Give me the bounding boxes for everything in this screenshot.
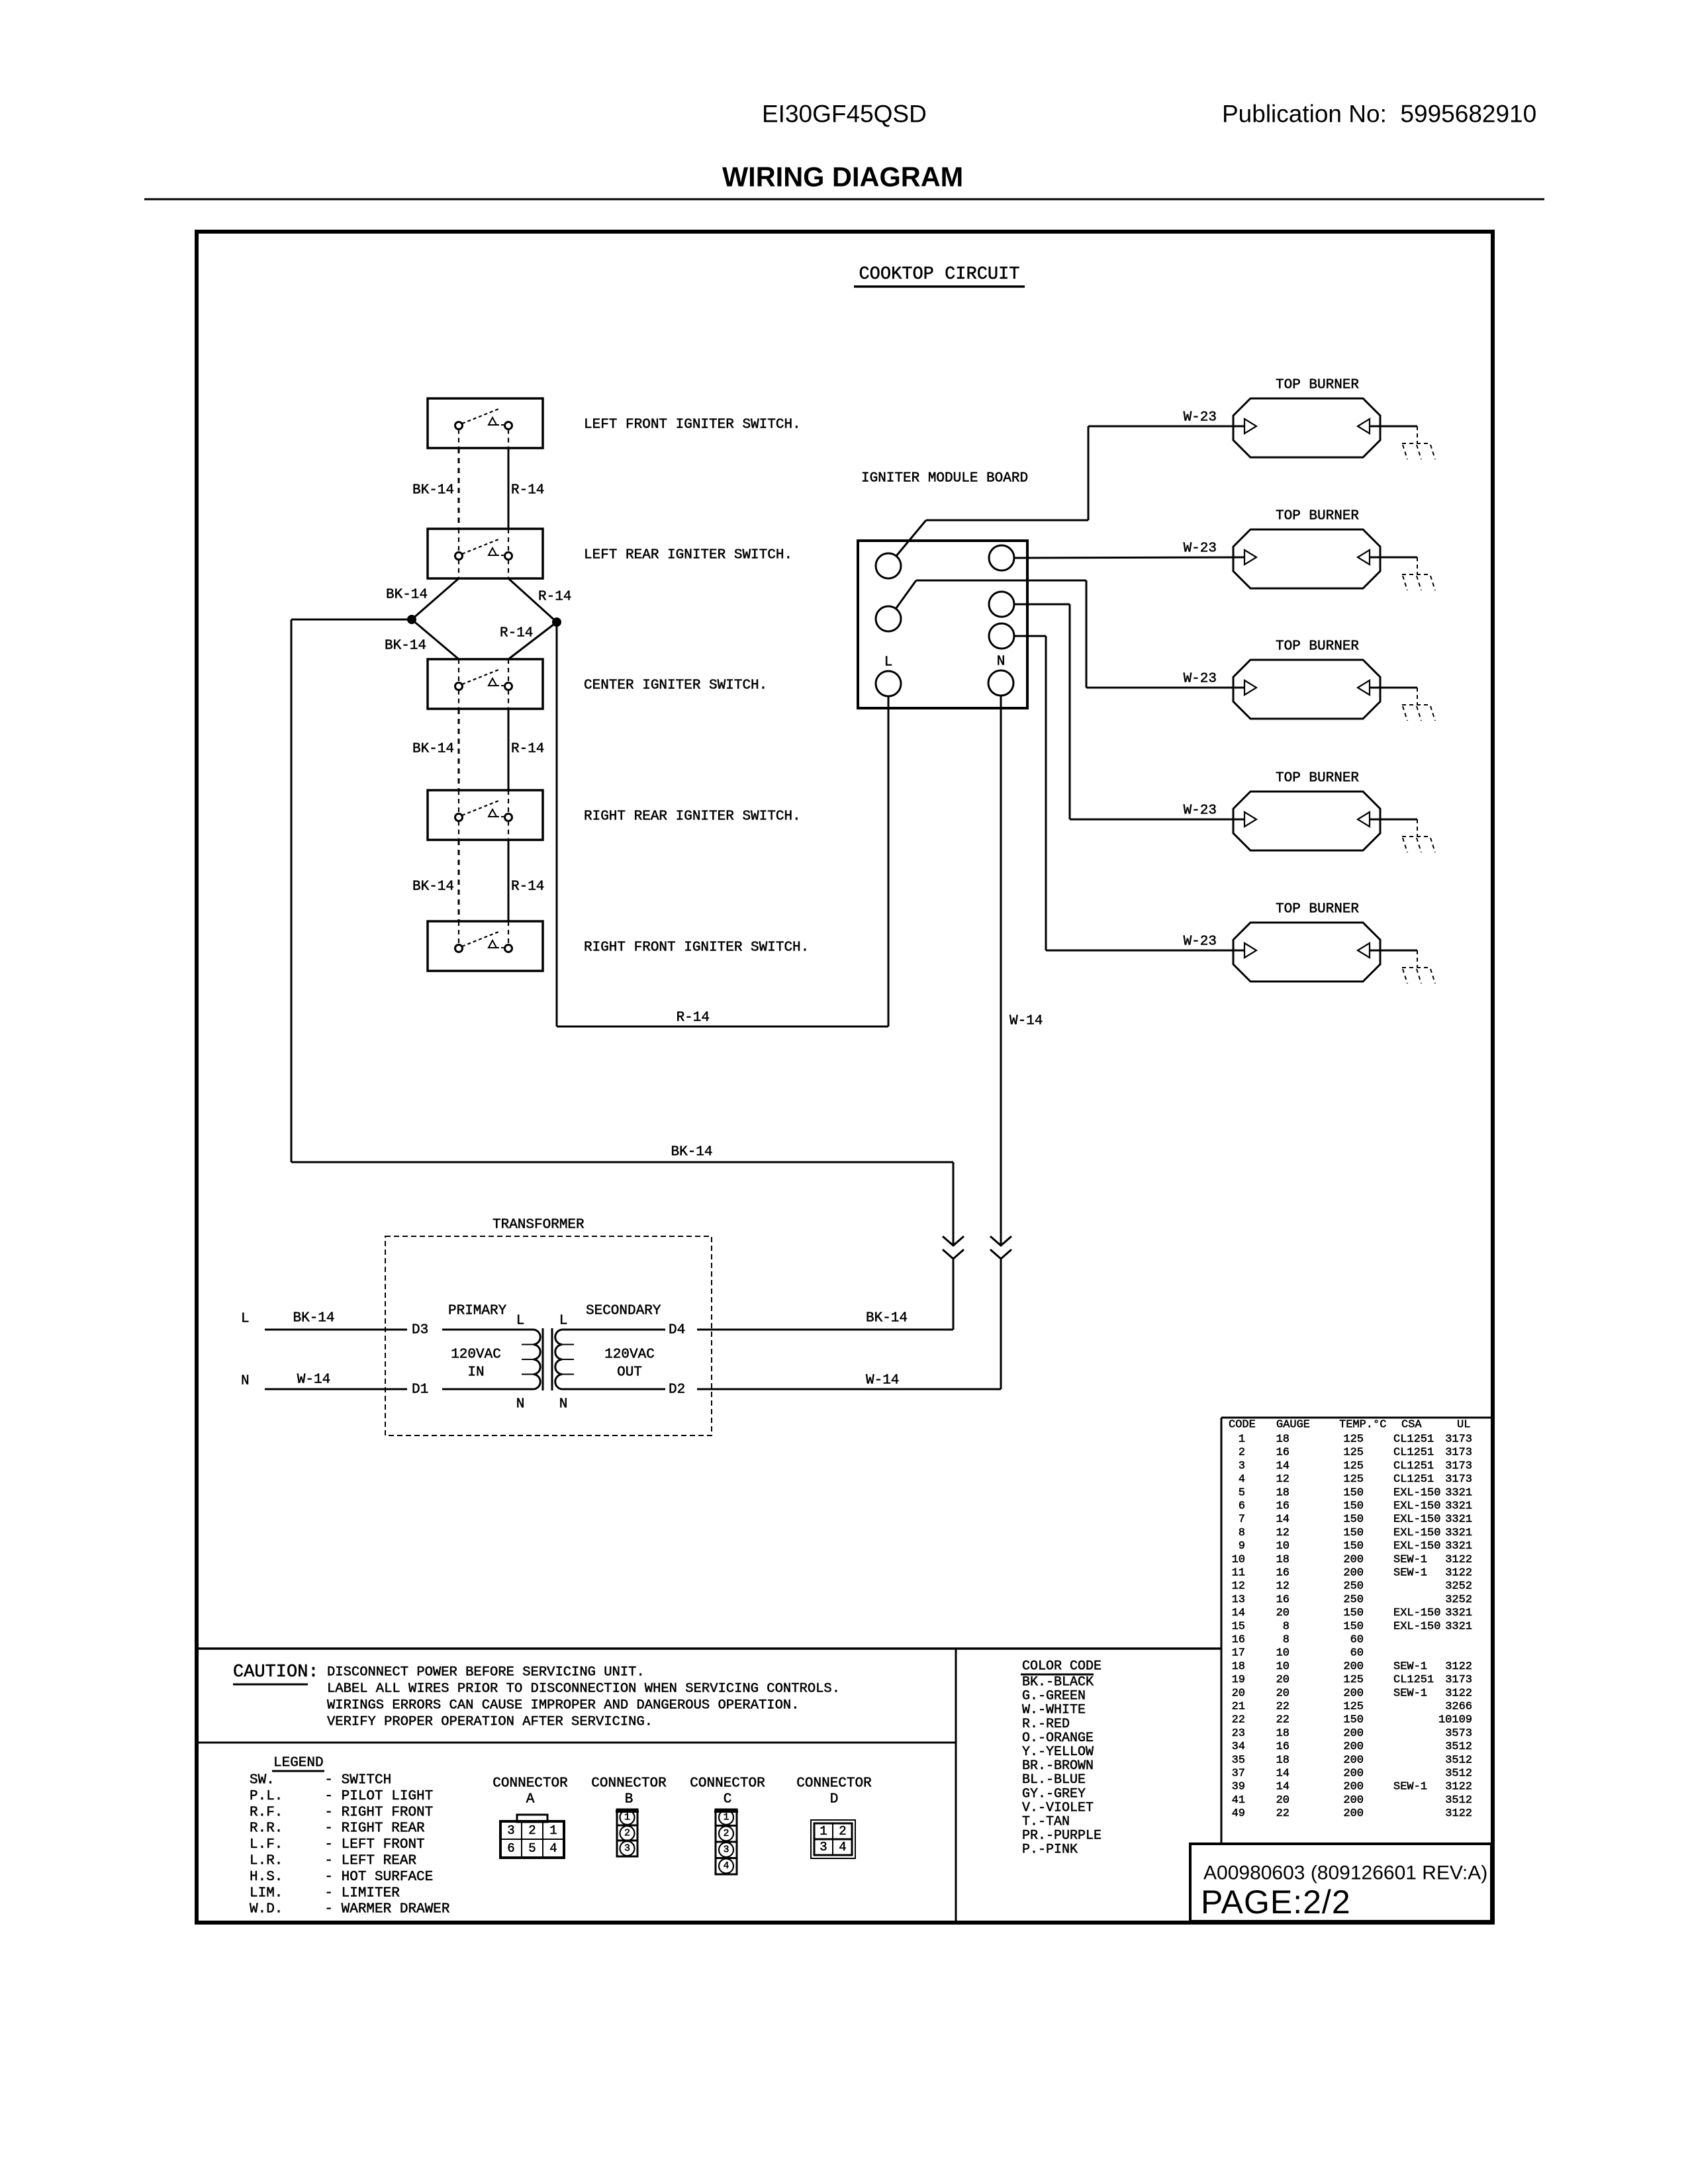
svg-text:L: L bbox=[241, 1312, 250, 1327]
svg-text:TOP BURNER: TOP BURNER bbox=[1276, 639, 1359, 655]
svg-text:L.R. - LEFT REAR: L.R. - LEFT REAR bbox=[250, 1854, 416, 1869]
svg-text:34: 34 bbox=[1232, 1741, 1245, 1753]
svg-text:R-14: R-14 bbox=[538, 590, 571, 605]
svg-text:CODE: CODE bbox=[1229, 1419, 1256, 1432]
svg-text:7: 7 bbox=[1239, 1514, 1245, 1526]
svg-text:14: 14 bbox=[1276, 1768, 1289, 1780]
svg-text:200: 200 bbox=[1343, 1794, 1364, 1807]
svg-text:3173: 3173 bbox=[1445, 1447, 1472, 1459]
svg-text:R-14: R-14 bbox=[511, 742, 544, 757]
svg-text:L.F. - LEFT FRONT: L.F. - LEFT FRONT bbox=[250, 1837, 425, 1852]
svg-text:13: 13 bbox=[1232, 1594, 1245, 1606]
svg-text:14: 14 bbox=[1232, 1607, 1245, 1619]
svg-text:TOP BURNER: TOP BURNER bbox=[1276, 902, 1359, 917]
svg-text:250: 250 bbox=[1343, 1594, 1364, 1606]
svg-text:CONNECTOR: CONNECTOR bbox=[690, 1776, 765, 1792]
svg-text:3512: 3512 bbox=[1445, 1741, 1472, 1753]
svg-text:3321: 3321 bbox=[1445, 1620, 1472, 1633]
svg-text:SECONDARY: SECONDARY bbox=[586, 1304, 661, 1319]
svg-text:20: 20 bbox=[1276, 1794, 1289, 1807]
svg-text:BK-14: BK-14 bbox=[866, 1311, 908, 1326]
svg-text:CL1251: CL1251 bbox=[1393, 1473, 1434, 1486]
svg-text:WIRING DIAGRAM: WIRING DIAGRAM bbox=[722, 161, 963, 193]
svg-text:CENTER IGNITER SWITCH.: CENTER IGNITER SWITCH. bbox=[584, 678, 767, 694]
svg-text:LEFT REAR IGNITER SWITCH.: LEFT REAR IGNITER SWITCH. bbox=[584, 548, 792, 563]
svg-text:150: 150 bbox=[1343, 1514, 1364, 1526]
svg-text:3321: 3321 bbox=[1445, 1486, 1472, 1499]
svg-text:2: 2 bbox=[839, 1824, 846, 1839]
svg-text:18: 18 bbox=[1276, 1727, 1289, 1740]
svg-text:3512: 3512 bbox=[1445, 1754, 1472, 1766]
svg-text:W-14: W-14 bbox=[866, 1373, 899, 1388]
svg-text:125: 125 bbox=[1343, 1674, 1364, 1686]
svg-text:BK-14: BK-14 bbox=[293, 1311, 334, 1326]
svg-text:N: N bbox=[997, 655, 1006, 670]
svg-text:3122: 3122 bbox=[1445, 1781, 1472, 1794]
svg-text:22: 22 bbox=[1276, 1807, 1289, 1820]
svg-text:20: 20 bbox=[1276, 1674, 1289, 1686]
svg-text:3: 3 bbox=[507, 1823, 514, 1838]
svg-text:3252: 3252 bbox=[1445, 1580, 1472, 1593]
svg-text:16: 16 bbox=[1232, 1634, 1245, 1647]
svg-text:1: 1 bbox=[820, 1824, 827, 1839]
svg-text:150: 150 bbox=[1343, 1486, 1364, 1499]
svg-text:W-14: W-14 bbox=[297, 1373, 330, 1388]
svg-text:17: 17 bbox=[1232, 1647, 1245, 1660]
svg-text:TOP BURNER: TOP BURNER bbox=[1276, 378, 1359, 393]
svg-text:LEGEND: LEGEND bbox=[273, 1756, 324, 1771]
svg-text:TOP BURNER: TOP BURNER bbox=[1276, 771, 1359, 786]
svg-text:EXL-150: EXL-150 bbox=[1393, 1514, 1440, 1526]
svg-text:10: 10 bbox=[1276, 1540, 1289, 1553]
svg-text:BK-14: BK-14 bbox=[386, 588, 428, 603]
svg-text:BK.-BLACK: BK.-BLACK bbox=[1022, 1675, 1094, 1690]
svg-text:2: 2 bbox=[1239, 1447, 1245, 1459]
svg-text:R-14: R-14 bbox=[511, 880, 544, 895]
svg-text:3173: 3173 bbox=[1445, 1460, 1472, 1473]
svg-text:200: 200 bbox=[1343, 1553, 1364, 1566]
svg-text:R-14: R-14 bbox=[511, 483, 544, 498]
svg-text:200: 200 bbox=[1343, 1687, 1364, 1700]
svg-text:12: 12 bbox=[1276, 1580, 1289, 1593]
svg-text:250: 250 bbox=[1343, 1580, 1364, 1593]
svg-text:GAUGE: GAUGE bbox=[1276, 1419, 1310, 1432]
svg-text:C: C bbox=[724, 1792, 732, 1807]
svg-text:CONNECTOR: CONNECTOR bbox=[492, 1776, 568, 1792]
svg-text:3512: 3512 bbox=[1445, 1768, 1472, 1780]
svg-text:8: 8 bbox=[1283, 1634, 1289, 1647]
svg-text:3: 3 bbox=[820, 1840, 827, 1854]
svg-text:H.S. - HOT SURFACE: H.S. - HOT SURFACE bbox=[250, 1870, 433, 1885]
svg-text:49: 49 bbox=[1232, 1807, 1245, 1820]
svg-text:150: 150 bbox=[1343, 1540, 1364, 1553]
svg-text:120VAC: 120VAC bbox=[604, 1347, 655, 1363]
svg-text:10: 10 bbox=[1276, 1647, 1289, 1660]
svg-text:200: 200 bbox=[1343, 1661, 1364, 1673]
svg-text:W-23: W-23 bbox=[1184, 410, 1217, 426]
svg-text:3266: 3266 bbox=[1445, 1701, 1472, 1713]
svg-text:3122: 3122 bbox=[1445, 1661, 1472, 1673]
svg-text:18: 18 bbox=[1276, 1553, 1289, 1566]
svg-text:4: 4 bbox=[839, 1840, 846, 1854]
svg-text:16: 16 bbox=[1276, 1447, 1289, 1459]
svg-text:12: 12 bbox=[1276, 1527, 1289, 1539]
svg-text:N: N bbox=[516, 1397, 525, 1412]
svg-text:CL1251: CL1251 bbox=[1393, 1674, 1434, 1686]
svg-text:8: 8 bbox=[1283, 1620, 1289, 1633]
svg-text:125: 125 bbox=[1343, 1460, 1364, 1473]
svg-text:10: 10 bbox=[1276, 1661, 1289, 1673]
svg-text:B: B bbox=[625, 1792, 633, 1807]
svg-text:200: 200 bbox=[1343, 1727, 1364, 1740]
svg-text:3: 3 bbox=[1239, 1460, 1245, 1473]
svg-text:16: 16 bbox=[1276, 1741, 1289, 1753]
svg-text:6: 6 bbox=[1239, 1500, 1245, 1513]
svg-text:3173: 3173 bbox=[1445, 1473, 1472, 1486]
svg-text:D3: D3 bbox=[412, 1323, 428, 1338]
svg-text:W.-WHITE: W.-WHITE bbox=[1022, 1703, 1086, 1718]
svg-text:CONNECTOR: CONNECTOR bbox=[796, 1776, 872, 1792]
svg-text:6: 6 bbox=[507, 1841, 514, 1856]
svg-text:A: A bbox=[526, 1792, 535, 1807]
svg-text:10109: 10109 bbox=[1438, 1714, 1472, 1727]
svg-text:3122: 3122 bbox=[1445, 1553, 1472, 1566]
svg-text:EXL-150: EXL-150 bbox=[1393, 1486, 1440, 1499]
svg-text:39: 39 bbox=[1232, 1781, 1245, 1794]
svg-text:EXL-150: EXL-150 bbox=[1393, 1527, 1440, 1539]
svg-text:BK-14: BK-14 bbox=[671, 1145, 712, 1160]
svg-text:T.-TAN: T.-TAN bbox=[1022, 1815, 1070, 1830]
svg-text:SW. - SWITCH: SW. - SWITCH bbox=[250, 1773, 391, 1788]
svg-text:3573: 3573 bbox=[1445, 1727, 1472, 1740]
svg-text:5: 5 bbox=[528, 1841, 536, 1856]
svg-text:2: 2 bbox=[723, 1828, 729, 1839]
svg-text:BK-14: BK-14 bbox=[412, 742, 454, 757]
svg-text:125: 125 bbox=[1343, 1701, 1364, 1713]
svg-text:3173: 3173 bbox=[1445, 1674, 1472, 1686]
svg-text:A00980603 (809126601 REV:A): A00980603 (809126601 REV:A) bbox=[1203, 1862, 1487, 1884]
svg-text:35: 35 bbox=[1232, 1754, 1245, 1766]
svg-text:Publication No: 5995682910: Publication No: 5995682910 bbox=[1222, 101, 1536, 128]
svg-text:BK-14: BK-14 bbox=[412, 483, 454, 498]
svg-text:R.F. - RIGHT FRONT: R.F. - RIGHT FRONT bbox=[250, 1805, 433, 1820]
svg-text:1: 1 bbox=[624, 1812, 630, 1823]
svg-text:16: 16 bbox=[1276, 1567, 1289, 1580]
svg-text:COOKTOP CIRCUIT: COOKTOP CIRCUIT bbox=[859, 265, 1019, 285]
svg-text:DISCONNECT POWER BEFORE SERVIC: DISCONNECT POWER BEFORE SERVICING UNIT. bbox=[327, 1665, 645, 1680]
svg-text:1: 1 bbox=[1239, 1433, 1245, 1446]
svg-text:D4: D4 bbox=[669, 1323, 685, 1338]
svg-text:W-23: W-23 bbox=[1184, 803, 1217, 819]
svg-text:PR.-PURPLE: PR.-PURPLE bbox=[1022, 1829, 1102, 1844]
svg-text:200: 200 bbox=[1343, 1781, 1364, 1794]
svg-text:16: 16 bbox=[1276, 1594, 1289, 1606]
svg-text:12: 12 bbox=[1232, 1580, 1245, 1593]
svg-text:R.R. - RIGHT REAR: R.R. - RIGHT REAR bbox=[250, 1821, 425, 1837]
svg-text:3122: 3122 bbox=[1445, 1807, 1472, 1820]
svg-text:CONNECTOR: CONNECTOR bbox=[591, 1776, 667, 1792]
svg-text:1: 1 bbox=[549, 1823, 557, 1838]
svg-text:CL1251: CL1251 bbox=[1393, 1447, 1434, 1459]
svg-text:EI30GF45QSD: EI30GF45QSD bbox=[762, 101, 927, 128]
svg-text:R.-RED: R.-RED bbox=[1022, 1717, 1070, 1732]
svg-text:BK-14: BK-14 bbox=[412, 880, 454, 895]
svg-text:EXL-150: EXL-150 bbox=[1393, 1620, 1440, 1633]
svg-text:14: 14 bbox=[1276, 1460, 1289, 1473]
svg-text:125: 125 bbox=[1343, 1447, 1364, 1459]
svg-text:4: 4 bbox=[1239, 1473, 1245, 1486]
svg-text:O.-ORANGE: O.-ORANGE bbox=[1022, 1731, 1094, 1746]
svg-text:22: 22 bbox=[1276, 1701, 1289, 1713]
svg-text:D: D bbox=[830, 1792, 839, 1807]
svg-text:D2: D2 bbox=[669, 1383, 685, 1398]
svg-text:150: 150 bbox=[1343, 1620, 1364, 1633]
svg-text:3122: 3122 bbox=[1445, 1567, 1472, 1580]
svg-text:60: 60 bbox=[1350, 1647, 1364, 1660]
svg-text:18: 18 bbox=[1276, 1433, 1289, 1446]
svg-text:14: 14 bbox=[1276, 1781, 1289, 1794]
svg-text:3321: 3321 bbox=[1445, 1527, 1472, 1539]
svg-text:IGNITER MODULE BOARD: IGNITER MODULE BOARD bbox=[861, 471, 1028, 486]
svg-text:200: 200 bbox=[1343, 1741, 1364, 1753]
svg-text:BR.-BROWN: BR.-BROWN bbox=[1022, 1758, 1094, 1774]
svg-text:15: 15 bbox=[1232, 1620, 1245, 1633]
svg-text:18: 18 bbox=[1232, 1661, 1245, 1673]
svg-text:W.D. - WARMER DRAWER: W.D. - WARMER DRAWER bbox=[250, 1902, 450, 1917]
svg-text:Y.-YELLOW: Y.-YELLOW bbox=[1022, 1745, 1094, 1760]
svg-text:3122: 3122 bbox=[1445, 1687, 1472, 1700]
svg-text:W-23: W-23 bbox=[1184, 541, 1217, 557]
svg-text:SEW-1: SEW-1 bbox=[1393, 1553, 1427, 1566]
svg-text:SEW-1: SEW-1 bbox=[1393, 1687, 1427, 1700]
svg-text:14: 14 bbox=[1276, 1514, 1289, 1526]
svg-text:3321: 3321 bbox=[1445, 1540, 1472, 1553]
svg-text:LEFT FRONT IGNITER SWITCH.: LEFT FRONT IGNITER SWITCH. bbox=[584, 418, 801, 433]
svg-text:L: L bbox=[516, 1314, 525, 1329]
svg-text:CSA: CSA bbox=[1401, 1419, 1422, 1432]
svg-text:CL1251: CL1251 bbox=[1393, 1460, 1434, 1473]
svg-text:SEW-1: SEW-1 bbox=[1393, 1781, 1427, 1794]
svg-text:3252: 3252 bbox=[1445, 1594, 1472, 1606]
svg-text:W-23: W-23 bbox=[1184, 934, 1217, 950]
svg-text:3512: 3512 bbox=[1445, 1794, 1472, 1807]
svg-text:16: 16 bbox=[1276, 1500, 1289, 1513]
svg-text:N: N bbox=[241, 1374, 250, 1389]
svg-text:N: N bbox=[559, 1397, 568, 1412]
svg-text:10: 10 bbox=[1232, 1553, 1245, 1566]
svg-text:20: 20 bbox=[1276, 1607, 1289, 1619]
svg-text:LIM. - LIMITER: LIM. - LIMITER bbox=[250, 1886, 400, 1901]
svg-text:CL1251: CL1251 bbox=[1393, 1433, 1434, 1446]
svg-text:PAGE:2/2: PAGE:2/2 bbox=[1201, 1884, 1351, 1921]
svg-text:TEMP.°C: TEMP.°C bbox=[1339, 1419, 1386, 1432]
svg-text:18: 18 bbox=[1276, 1754, 1289, 1766]
svg-text:21: 21 bbox=[1232, 1701, 1245, 1713]
svg-text:P.L. - PILOT LIGHT: P.L. - PILOT LIGHT bbox=[250, 1789, 433, 1804]
svg-text:GY.-GREY: GY.-GREY bbox=[1022, 1786, 1086, 1801]
svg-text:2: 2 bbox=[528, 1823, 536, 1838]
svg-text:37: 37 bbox=[1232, 1768, 1245, 1780]
svg-text:2: 2 bbox=[624, 1828, 630, 1839]
svg-text:23: 23 bbox=[1232, 1727, 1245, 1740]
svg-text:TOP BURNER: TOP BURNER bbox=[1276, 509, 1359, 524]
svg-text:125: 125 bbox=[1343, 1473, 1364, 1486]
svg-text:R-14: R-14 bbox=[677, 1011, 710, 1026]
svg-text:22: 22 bbox=[1276, 1714, 1289, 1727]
svg-text:PRIMARY: PRIMARY bbox=[448, 1304, 507, 1319]
svg-text:20: 20 bbox=[1232, 1687, 1245, 1700]
svg-text:3: 3 bbox=[624, 1843, 630, 1854]
svg-text:3173: 3173 bbox=[1445, 1433, 1472, 1446]
svg-text:3321: 3321 bbox=[1445, 1514, 1472, 1526]
svg-text:11: 11 bbox=[1232, 1567, 1245, 1580]
svg-text:150: 150 bbox=[1343, 1714, 1364, 1727]
svg-text:150: 150 bbox=[1343, 1500, 1364, 1513]
svg-text:3321: 3321 bbox=[1445, 1607, 1472, 1619]
svg-text:3: 3 bbox=[723, 1844, 729, 1856]
svg-text:120VAC: 120VAC bbox=[451, 1347, 501, 1363]
svg-text:12: 12 bbox=[1276, 1473, 1289, 1486]
svg-text:EXL-150: EXL-150 bbox=[1393, 1500, 1440, 1513]
svg-text:SEW-1: SEW-1 bbox=[1393, 1567, 1427, 1580]
svg-text:3321: 3321 bbox=[1445, 1500, 1472, 1513]
svg-text:200: 200 bbox=[1343, 1567, 1364, 1580]
svg-text:BK-14: BK-14 bbox=[385, 639, 426, 654]
svg-text:VERIFY PROPER OPERATION AFTER: VERIFY PROPER OPERATION AFTER SERVICING. bbox=[327, 1715, 653, 1730]
svg-text:TRANSFORMER: TRANSFORMER bbox=[492, 1218, 585, 1233]
svg-text:L: L bbox=[559, 1314, 568, 1329]
svg-text:EXL-150: EXL-150 bbox=[1393, 1540, 1440, 1553]
svg-text:LABEL ALL WIRES PRIOR TO DISCO: LABEL ALL WIRES PRIOR TO DISCONNECTION W… bbox=[327, 1682, 840, 1697]
svg-text:V.-VIOLET: V.-VIOLET bbox=[1022, 1800, 1094, 1815]
svg-text:IN: IN bbox=[467, 1365, 484, 1381]
svg-text:200: 200 bbox=[1343, 1754, 1364, 1766]
svg-text:UL: UL bbox=[1457, 1419, 1470, 1432]
svg-text:R-14: R-14 bbox=[500, 626, 533, 641]
svg-text:150: 150 bbox=[1343, 1607, 1364, 1619]
svg-text:L: L bbox=[884, 655, 893, 670]
svg-text:60: 60 bbox=[1350, 1634, 1364, 1647]
svg-text:W-23: W-23 bbox=[1184, 672, 1217, 687]
svg-text:1: 1 bbox=[723, 1812, 729, 1823]
svg-text:200: 200 bbox=[1343, 1768, 1364, 1780]
svg-text:P.-PINK: P.-PINK bbox=[1022, 1843, 1078, 1858]
svg-text:41: 41 bbox=[1232, 1794, 1245, 1807]
svg-text:5: 5 bbox=[1239, 1486, 1245, 1499]
svg-text:G.-GREEN: G.-GREEN bbox=[1022, 1689, 1086, 1704]
svg-text:22: 22 bbox=[1232, 1714, 1245, 1727]
svg-text:125: 125 bbox=[1343, 1433, 1364, 1446]
svg-text:EXL-150: EXL-150 bbox=[1393, 1607, 1440, 1619]
svg-text:4: 4 bbox=[723, 1860, 729, 1872]
svg-text:20: 20 bbox=[1276, 1687, 1289, 1700]
svg-text:19: 19 bbox=[1232, 1674, 1245, 1686]
svg-text:D1: D1 bbox=[412, 1383, 428, 1398]
svg-text:BL.-BLUE: BL.-BLUE bbox=[1022, 1772, 1086, 1788]
svg-text:W-14: W-14 bbox=[1009, 1014, 1043, 1029]
svg-text:8: 8 bbox=[1239, 1527, 1245, 1539]
svg-text:SEW-1: SEW-1 bbox=[1393, 1661, 1427, 1673]
svg-text:9: 9 bbox=[1239, 1540, 1245, 1553]
svg-text:18: 18 bbox=[1276, 1486, 1289, 1499]
svg-text:150: 150 bbox=[1343, 1527, 1364, 1539]
svg-text:200: 200 bbox=[1343, 1807, 1364, 1820]
svg-text:WIRINGS ERRORS CAN CAUSE IMPRO: WIRINGS ERRORS CAN CAUSE IMPROPER AND DA… bbox=[327, 1698, 800, 1713]
svg-text:4: 4 bbox=[549, 1841, 557, 1856]
svg-text:RIGHT FRONT IGNITER SWITCH.: RIGHT FRONT IGNITER SWITCH. bbox=[584, 940, 809, 956]
svg-text:COLOR CODE: COLOR CODE bbox=[1022, 1659, 1102, 1674]
svg-text:OUT: OUT bbox=[617, 1365, 642, 1381]
svg-text:CAUTION:: CAUTION: bbox=[233, 1662, 319, 1682]
svg-text:RIGHT REAR IGNITER SWITCH.: RIGHT REAR IGNITER SWITCH. bbox=[584, 809, 801, 825]
